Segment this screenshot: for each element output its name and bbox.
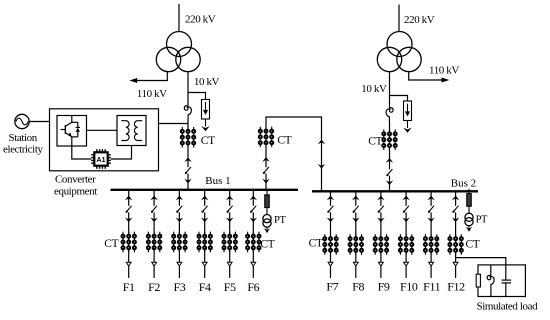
transformer T3 (isolation) box	[117, 116, 146, 146]
wire: bus tie top link	[266, 117, 322, 191]
svg-text:F12: F12	[447, 280, 465, 294]
transformer T2: LV winding circle	[377, 47, 401, 71]
svg-text:A1: A1	[97, 157, 106, 164]
svg-text:electricity: electricity	[3, 143, 43, 155]
feeder F6: drawout breaker (chevron, slash, chevron)	[250, 196, 257, 201]
breaker QF (right incomer): switch slash	[386, 169, 392, 176]
feeder F11: CT (3x3 cores)	[424, 234, 438, 255]
feeder F1: drawout breaker (chevron, slash, chevron)	[125, 196, 132, 201]
svg-text:Bus 2: Bus 2	[451, 177, 476, 189]
wire: bus tie left leg to Bus 1	[265, 174, 267, 190]
feeder F2: outgoing wire	[153, 266, 155, 278]
svg-text:equipment: equipment	[54, 186, 97, 198]
svg-text:110 kV: 110 kV	[429, 65, 459, 77]
feeder F4: CT (3x3 cores)	[198, 232, 212, 253]
svg-text:CT: CT	[104, 238, 118, 250]
breaker QF (left incomer): upper drawout chevron	[184, 157, 191, 162]
wire: AC source to converter box	[29, 121, 49, 123]
svg-text:Converter: Converter	[55, 174, 96, 186]
load capacitor C branch	[505, 265, 507, 280]
svg-text:CT: CT	[466, 239, 480, 251]
feeder F8: cable connector	[353, 262, 358, 266]
wire: branch to surge arrester (left)	[188, 93, 206, 100]
feeder F7: wire through CT	[330, 212, 332, 262]
svg-text:F4: F4	[199, 280, 211, 294]
feeder F2: CT (3x3 cores)	[147, 232, 161, 253]
wire: left incomer mid section	[187, 120, 189, 168]
feeder F10: outgoing wire	[405, 266, 407, 278]
feeder F4: wire from bus	[204, 190, 206, 206]
wire: right incomer to Bus 2	[389, 176, 391, 192]
wire: converter output to 10 kV line	[159, 123, 189, 125]
feeder F5: wire from bus	[229, 190, 231, 206]
CT on right incomer (3x3 cores)	[382, 129, 396, 150]
svg-text:CT: CT	[201, 135, 215, 147]
feeder F9: CT (3x3 cores)	[374, 234, 388, 255]
feeder F3: drawout breaker (chevron, slash, chevron)	[176, 196, 183, 201]
feeder F7: cable connector	[328, 262, 333, 266]
wire: 110 kV outgoing (left) with arrow	[137, 72, 168, 81]
wire: 10 kV main drop (left incomer, upper part)	[187, 72, 189, 102]
feeder F12: CT (3x3 cores)	[448, 234, 462, 255]
transformer T1: LV winding circle	[156, 47, 180, 71]
wire: F12 tap to simulated load	[456, 258, 506, 265]
drawout link on bus tie right leg: upper chevron	[318, 139, 325, 144]
feeder F6: CT (3x3 cores)	[246, 232, 260, 253]
feeder F9: cable connector	[379, 262, 384, 266]
svg-text:F9: F9	[378, 280, 390, 294]
wire: branch to surge arrester (right)	[390, 96, 408, 102]
surge arrester FV1 with ground arrow	[201, 100, 209, 132]
feeder F6: outgoing wire	[252, 266, 254, 278]
wire: 220 kV incoming line (right)	[398, 5, 400, 33]
feeder F4: wire through CT	[204, 212, 206, 262]
svg-text:PT: PT	[274, 215, 286, 226]
fuse curl on left incomer line	[184, 102, 191, 120]
feeder F6: cable connector	[251, 262, 256, 266]
feeder F1: CT (3x3 cores)	[122, 232, 136, 253]
feeder F2: wire from bus	[153, 190, 155, 206]
IGBT Q1 with anti-parallel diode inside U1	[71, 116, 73, 123]
feeder F9: wire from bus	[380, 191, 382, 206]
transformer T2 (three-winding, right): HV winding circle	[387, 32, 412, 57]
svg-text:10 kV: 10 kV	[194, 76, 220, 88]
svg-text:CT: CT	[277, 135, 291, 147]
breaker on bus tie left leg: switch slash	[263, 167, 269, 174]
controller chip A1	[91, 149, 111, 169]
feeder F2: wire through CT	[153, 212, 155, 262]
feeder F12: wire through CT	[455, 212, 457, 262]
svg-text:F7: F7	[326, 280, 338, 294]
transformer T1: MV winding circle	[176, 47, 200, 71]
feeder F3: wire from bus	[178, 190, 180, 206]
svg-text:F5: F5	[224, 280, 236, 294]
PT branch on Bus 1 (fuse + voltage transformer + arrow)	[263, 190, 271, 233]
feeder F10: wire from bus	[405, 191, 407, 206]
wire: U1 to chip A1	[72, 146, 91, 159]
feeder F8: wire from bus	[355, 191, 357, 206]
svg-text:220 kV: 220 kV	[404, 14, 435, 26]
feeder F5: outgoing wire	[229, 266, 231, 278]
feeder F3: wire through CT	[178, 212, 180, 262]
feeder F6: wire from bus	[252, 190, 254, 206]
breaker QF (left incomer): switch slash	[185, 167, 191, 174]
svg-text:CT: CT	[368, 135, 382, 147]
Bus 2 bar	[312, 190, 478, 192]
simulated load box	[478, 265, 525, 297]
T3 primary winding	[121, 121, 129, 141]
feeder F12: cable connector	[453, 262, 458, 266]
svg-text:CT: CT	[260, 238, 274, 250]
svg-text:F2: F2	[148, 280, 160, 294]
feeder F7: drawout breaker (chevron, slash, chevron)	[327, 196, 334, 201]
CT on bus tie	[259, 127, 273, 148]
feeder F8: drawout breaker (chevron, slash, chevron)	[352, 196, 359, 201]
feeder F4: cable connector	[202, 262, 207, 266]
feeder F11: outgoing wire	[430, 266, 432, 278]
svg-text:Simulated load: Simulated load	[477, 300, 539, 312]
feeder F10: CT (3x3 cores)	[399, 234, 413, 255]
wire: U1 to T3 link	[87, 129, 118, 131]
feeder F1: wire through CT	[128, 212, 130, 262]
Bus 1 bar	[111, 189, 299, 191]
fuse curl on right incomer line	[386, 104, 393, 122]
feeder F1: wire from bus	[128, 190, 130, 206]
feeder F9: drawout breaker (chevron, slash, chevron)	[377, 196, 384, 201]
load resistor R	[476, 274, 480, 287]
converter module U1 (IGBT bridge) box	[57, 116, 87, 147]
feeder F4: drawout breaker (chevron, slash, chevron)	[201, 196, 208, 201]
load inductor L branch	[490, 265, 492, 272]
feeder F8: CT (3x3 cores)	[349, 234, 363, 255]
feeder F5: wire through CT	[229, 212, 231, 262]
breaker QF (left incomer): lower drawout chevron	[184, 179, 191, 184]
transformer T2: MV winding circle	[397, 47, 421, 71]
feeder F8: wire through CT	[355, 212, 357, 262]
svg-text:Bus 1: Bus 1	[205, 175, 230, 187]
svg-text:F10: F10	[400, 280, 418, 294]
feeder F11: cable connector	[429, 262, 434, 266]
converter equipment outer box	[50, 109, 159, 171]
svg-text:F3: F3	[173, 280, 185, 294]
feeder F12: wire from bus	[455, 191, 457, 206]
feeder F9: wire through CT	[380, 212, 382, 262]
breaker on bus tie left leg: lower chevron	[262, 179, 269, 184]
T3 secondary winding	[134, 121, 142, 141]
transformer T1 (three-winding, left): HV winding circle	[167, 32, 192, 57]
feeder F1: outgoing wire	[128, 266, 130, 278]
feeder F3: cable connector	[177, 262, 182, 266]
svg-text:10 kV: 10 kV	[361, 83, 387, 95]
feeder F7: outgoing wire	[330, 266, 332, 278]
breaker QF (right incomer): lower drawout chevron	[386, 180, 393, 185]
PT branch on Bus 2 (fuse + voltage transformer + arrow)	[465, 189, 473, 232]
feeder F10: wire through CT	[405, 212, 407, 262]
svg-text:F6: F6	[247, 280, 259, 294]
feeder F5: drawout breaker (chevron, slash, chevron)	[226, 196, 233, 201]
feeder F2: cable connector	[152, 262, 157, 266]
feeder F3: CT (3x3 cores)	[172, 232, 186, 253]
feeder F8: outgoing wire	[355, 266, 357, 278]
feeder F10: drawout breaker (chevron, slash, chevron)	[402, 196, 409, 201]
feeder F12: drawout breaker (chevron, slash, chevron)	[452, 196, 459, 201]
wire: left incomer to Bus 1	[187, 174, 189, 190]
feeder F3: outgoing wire	[178, 266, 180, 278]
surge arrester FV2 with ground arrow	[403, 101, 411, 133]
wire: 110 kV outgoing (right) with arrow	[409, 72, 442, 80]
wire: T3 to chip A1	[111, 146, 132, 160]
feeder F11: wire from bus	[430, 191, 432, 206]
svg-text:F1: F1	[123, 280, 135, 294]
feeder F1: cable connector	[126, 262, 131, 266]
feeder F2: drawout breaker (chevron, slash, chevron)	[150, 196, 157, 201]
wire: right incomer mid section	[389, 122, 391, 170]
breaker QF (right incomer): upper drawout chevron	[386, 158, 393, 163]
wire: 220 kV incoming line (left)	[178, 4, 180, 32]
feeder F11: drawout breaker (chevron, slash, chevron)	[427, 196, 434, 201]
feeder F10: cable connector	[404, 262, 409, 266]
breaker on bus tie left leg: upper chevron	[262, 157, 269, 162]
feeder F4: outgoing wire	[204, 266, 206, 278]
CT on left incomer (3x3 cores)	[181, 127, 195, 148]
feeder F12: outgoing wire	[455, 266, 457, 278]
feeder F7: wire from bus	[330, 191, 332, 206]
svg-text:Station: Station	[9, 132, 38, 144]
feeder F6: wire through CT	[252, 212, 254, 262]
drawout link on bus tie right leg: lower chevron	[318, 164, 325, 169]
feeder F9: outgoing wire	[380, 266, 382, 278]
wire: 10 kV main drop (right incomer, upper part)	[389, 72, 391, 104]
svg-text:F11: F11	[423, 280, 440, 294]
feeder F7: CT (3x3 cores)	[323, 234, 337, 255]
svg-text:CT: CT	[309, 238, 323, 250]
AC source G: station electricity	[15, 114, 29, 128]
svg-text:220 kV: 220 kV	[185, 14, 216, 26]
svg-text:PT: PT	[476, 215, 488, 226]
svg-text:F8: F8	[352, 280, 364, 294]
svg-text:110 kV: 110 kV	[137, 88, 167, 100]
feeder F11: wire through CT	[430, 212, 432, 262]
feeder F5: CT (3x3 cores)	[223, 232, 237, 253]
feeder F5: cable connector	[227, 262, 232, 266]
